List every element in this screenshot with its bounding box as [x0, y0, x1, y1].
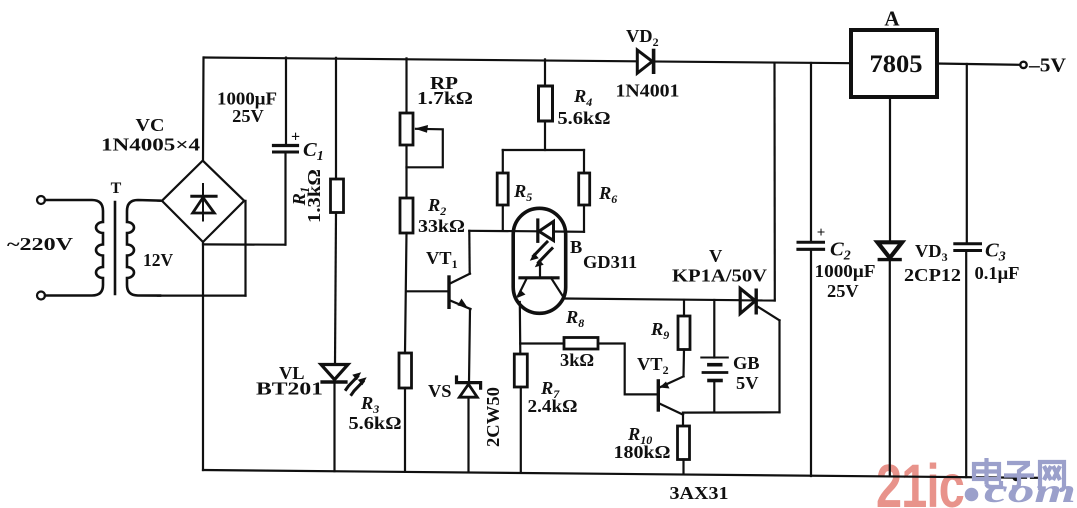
battery GB top lead [713, 300, 715, 358]
resistor R7 box [514, 354, 527, 387]
svg-text:1000μF: 1000μF [815, 261, 876, 281]
watermark hanzi wang [1040, 462, 1064, 490]
resistor R8 box [564, 338, 598, 350]
resistor R9 box [678, 316, 690, 350]
svg-text:2.4kΩ: 2.4kΩ [528, 396, 578, 416]
wire R5 to opto LED cathode wire [502, 205, 504, 231]
svg-text:7805: 7805 [870, 51, 923, 78]
svg-text:3kΩ: 3kΩ [560, 350, 594, 370]
wire secondary top to bridge left vertex [158, 200, 162, 202]
battery GB bottom lead [713, 381, 715, 413]
resistor R5 box [497, 173, 508, 205]
wire VT1 emitter down to zener VS [469, 309, 470, 382]
wire VT1 collector up to opto LED wire [468, 231, 471, 274]
output terminal circle [1020, 62, 1026, 68]
diode VD3 symbol [878, 242, 903, 259]
wire thyristor cathode up to top rail [773, 63, 775, 301]
resistor R6 box [579, 173, 590, 205]
rectifier VC inner diode [192, 184, 216, 221]
potentiometer RP column upper [405, 58, 407, 113]
transformer T primary winding [45, 200, 103, 296]
wire VS to ground [467, 397, 469, 472]
capacitor C3 column upper [966, 64, 968, 244]
capacitor C2 column upper [810, 63, 812, 242]
wire R10 to ground [682, 460, 684, 475]
optocoupler B light arrows [530, 242, 552, 267]
svg-text:1N4005×4: 1N4005×4 [101, 135, 200, 155]
optocoupler B internal LED [538, 220, 554, 241]
capacitor C1 column lower [284, 153, 286, 245]
svg-text:1N4001: 1N4001 [616, 81, 680, 101]
svg-text:BT201: BT201 [256, 379, 323, 399]
svg-text:B: B [570, 237, 582, 257]
wire bridge bottom to C1 column [203, 243, 285, 246]
capacitor C1 plates [274, 146, 298, 153]
wire 7805 output to terminal [936, 64, 1020, 65]
wire VT1 base [407, 290, 448, 292]
wire bridge bottom vertex to ground rail [202, 242, 204, 470]
svg-text:V: V [709, 246, 723, 266]
svg-text:25V: 25V [827, 281, 859, 301]
wire R7 to ground [520, 387, 522, 473]
thyristor V symbol [740, 289, 779, 321]
resistor R3 box [399, 353, 412, 388]
wire tee to R6 [583, 150, 585, 173]
zener diode VS [457, 377, 481, 397]
svg-text:25V: 25V [232, 106, 264, 126]
resistor R4 column upper [544, 59, 546, 86]
svg-text:VC: VC [136, 115, 165, 135]
capacitor C3 column lower [965, 252, 967, 478]
wire opto emitter down to R7 R8 node [519, 302, 522, 354]
resistor R1 box [331, 179, 344, 213]
wire tee to R5 [502, 150, 504, 173]
svg-text:R9: R9 [650, 319, 669, 342]
svg-text:R4: R4 [573, 86, 592, 109]
svg-text:R2: R2 [427, 195, 446, 218]
optocoupler B phototransistor [517, 267, 564, 299]
transformer T secondary winding [127, 200, 160, 296]
battery GB cells [701, 358, 728, 381]
svg-text:GB: GB [733, 353, 760, 373]
wire VT2 collector to R10 [682, 413, 684, 426]
wire ground rail dashes under watermark [1018, 477, 1026, 479]
svg-text:5V: 5V [736, 373, 759, 393]
wire R6 to opto LED anode wire [583, 205, 585, 232]
svg-text:180kΩ: 180kΩ [614, 442, 671, 462]
junction dot on ground rail [1013, 474, 1020, 481]
wire secondary bottom to bridge right vertex [158, 295, 246, 297]
resistor R9 column from thyristor anode wire [683, 300, 685, 316]
LED VL symbol [321, 365, 367, 395]
svg-text:R6: R6 [598, 183, 617, 206]
rectifier VC bridge diamond [162, 161, 244, 242]
watermark hanzi zi [1004, 463, 1034, 487]
wire R5 R6 tee [503, 149, 584, 151]
input terminal upper [37, 196, 45, 204]
resistor R1 column upper [335, 58, 337, 179]
transistor VT2 [658, 376, 683, 414]
resistor R4 box [539, 86, 553, 121]
diode VD2 symbol [637, 50, 653, 73]
svg-text:0.1μF: 0.1μF [975, 263, 1020, 283]
svg-text:2CP12: 2CP12 [904, 265, 961, 285]
wire R9 to VT2 emitter [682, 350, 685, 377]
wire opto LED cathode horizontal [469, 230, 537, 233]
input terminal lower [37, 292, 45, 300]
svg-text:1.7kΩ: 1.7kΩ [417, 88, 473, 108]
capacitor C2 plates [798, 242, 824, 249]
svg-text:VD3: VD3 [915, 241, 948, 264]
svg-text:R5: R5 [513, 181, 532, 204]
wire top rail from bridge to 7805 input [204, 58, 851, 64]
capacitor C3 plates [955, 244, 981, 251]
svg-text:C1: C1 [303, 139, 324, 164]
svg-text:KP1A/50V: KP1A/50V [672, 266, 768, 286]
wire VD3 to ground [889, 260, 891, 477]
watermark dot of .com [965, 488, 979, 502]
svg-text:VT2: VT2 [637, 354, 669, 377]
svg-text:~220V: ~220V [7, 234, 73, 254]
svg-text:–5V: –5V [1028, 55, 1067, 77]
capacitor C1 column upper [285, 58, 287, 145]
transformer core [114, 202, 117, 294]
capacitor C2 column lower [810, 251, 812, 477]
svg-text:3AX31: 3AX31 [670, 483, 729, 503]
regulator A 7805 box [851, 30, 937, 97]
wire bridge right vertex down [244, 201, 246, 296]
wire R3 to ground [404, 388, 406, 472]
svg-text:T: T [111, 180, 122, 197]
svg-text:VT1: VT1 [426, 248, 458, 271]
wire opto LED anode horizontal [554, 230, 585, 233]
wire RP to R2 [405, 145, 407, 198]
resistor R2 box [400, 198, 413, 233]
svg-text:+: + [817, 225, 826, 241]
svg-text:GD311: GD311 [583, 252, 637, 272]
svg-text:R8: R8 [565, 307, 584, 330]
svg-text:+: + [291, 129, 300, 146]
wire R2 to R3 with VT1 base node [405, 233, 407, 353]
transistor VT1 [449, 274, 471, 309]
svg-text:C3: C3 [985, 240, 1006, 265]
potentiometer RP box [400, 113, 413, 145]
wire LED VL to ground [333, 384, 335, 472]
wire R8 to VT2 base corner [598, 344, 657, 395]
svg-text:VS: VS [428, 381, 452, 401]
wire bottom ground rail [203, 470, 1013, 478]
svg-text:5.6kΩ: 5.6kΩ [558, 108, 611, 128]
optocoupler B capsule [513, 208, 566, 313]
wire R4 to tee [544, 121, 546, 150]
svg-text:A: A [884, 7, 900, 31]
svg-text:C2: C2 [830, 239, 851, 264]
svg-text:VD2: VD2 [626, 26, 659, 49]
wire thyristor gate down [778, 320, 780, 412]
watermark hanzi dian [974, 458, 1001, 487]
svg-text:33kΩ: 33kΩ [418, 216, 465, 236]
svg-text:12V: 12V [143, 250, 174, 270]
wire opto collector to thyristor anode [564, 299, 739, 301]
wire bridge top vertex to top rail [202, 58, 205, 161]
wire R1 to LED VL [335, 213, 336, 365]
wire 7805 gnd pin down [889, 97, 891, 242]
potentiometer RP wiper arrow and feedback wire [407, 125, 443, 167]
svg-text:2CW50: 2CW50 [483, 387, 503, 447]
wire R7 node to R8 [520, 342, 564, 344]
wire VT2 collector to thyristor gate rail [683, 411, 780, 414]
resistor R10 box [678, 426, 690, 460]
svg-text:5.6kΩ: 5.6kΩ [349, 413, 402, 433]
svg-text:1.3kΩ: 1.3kΩ [304, 169, 324, 223]
